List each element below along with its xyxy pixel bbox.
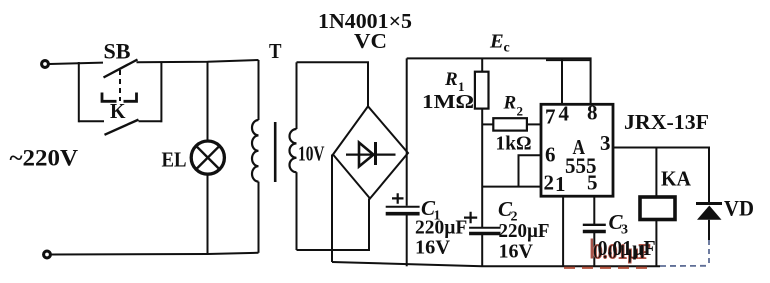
wire pin2 horizontal bbox=[482, 186, 541, 188]
svg-text:EL: EL bbox=[162, 148, 187, 172]
svg-text:c: c bbox=[504, 41, 510, 56]
svg-text:4: 4 bbox=[559, 102, 570, 126]
wire R2 to pin7 bbox=[527, 123, 541, 125]
transformer T primary winding bbox=[252, 120, 258, 182]
terminal bottom-left bbox=[44, 251, 51, 258]
wire EL branch bottom bbox=[207, 174, 209, 254]
switch SB blade bbox=[104, 60, 138, 78]
op-amp U1 555 box bbox=[541, 104, 613, 196]
contact K blade bbox=[105, 120, 139, 135]
lamp EL bbox=[191, 141, 224, 174]
wire C1 bottom bbox=[406, 216, 408, 267]
svg-text:3: 3 bbox=[600, 131, 611, 155]
diode VD bbox=[696, 202, 722, 205]
wire secondary top to bridge bbox=[297, 62, 369, 106]
capacitor C3 bbox=[583, 224, 606, 226]
wire R2 left bbox=[482, 123, 493, 125]
transformer T secondary wire bottom bbox=[296, 172, 298, 250]
svg-text:1kΩ: 1kΩ bbox=[496, 133, 532, 155]
wire pin5 to C3 bbox=[593, 196, 595, 224]
wire rail doubled segment bbox=[546, 59, 590, 61]
transformer T primary wire bottom bbox=[258, 182, 260, 253]
wire bottom rail left bbox=[51, 253, 259, 255]
wire bridge minus to ground bbox=[331, 155, 333, 263]
wire Ec top rail bbox=[407, 58, 591, 104]
svg-text:10V: 10V bbox=[298, 142, 325, 166]
wire VD bottom bbox=[708, 220, 710, 240]
svg-text:7: 7 bbox=[545, 105, 556, 129]
transformer T secondary wire top bbox=[296, 62, 298, 129]
svg-text:T: T bbox=[269, 39, 282, 63]
wire pin6 jog bbox=[519, 155, 542, 186]
svg-text:220µF: 220µF bbox=[499, 220, 550, 242]
bridge diode symbol bbox=[346, 154, 396, 156]
pushbutton bracket bbox=[102, 93, 137, 102]
wire pin4 drop bbox=[561, 58, 563, 104]
wire C3 bottom bbox=[593, 233, 595, 266]
wire ground rail right faded bbox=[660, 265, 707, 267]
transformer core bbox=[274, 122, 277, 182]
svg-text:VD: VD bbox=[724, 196, 754, 221]
wire R1 top bbox=[481, 58, 483, 74]
capacitor C1 bbox=[386, 206, 420, 208]
mechanical link dashed bbox=[119, 70, 121, 101]
svg-text:1: 1 bbox=[555, 172, 566, 196]
svg-text:R: R bbox=[503, 93, 517, 114]
wire top rail left bbox=[50, 63, 104, 64]
wire EL branch top bbox=[207, 62, 209, 142]
label C3 value red ghost bbox=[591, 239, 593, 259]
wire KA bottom bbox=[655, 220, 657, 267]
svg-text:8: 8 bbox=[587, 101, 598, 125]
terminal top-left bbox=[42, 61, 49, 68]
svg-text:R: R bbox=[444, 69, 458, 90]
wire C2 bottom bbox=[481, 235, 483, 266]
transformer T secondary winding bbox=[290, 129, 297, 172]
svg-text:~220V: ~220V bbox=[10, 146, 79, 171]
capacitor C2 bbox=[469, 227, 500, 229]
resistor R2 bbox=[493, 118, 527, 130]
wire secondary bottom to bridge bbox=[297, 199, 370, 251]
red overlay dashes on ground rail bbox=[564, 267, 652, 269]
svg-text:SB: SB bbox=[104, 39, 131, 64]
transformer T primary wire top bbox=[258, 60, 260, 120]
svg-text:16V: 16V bbox=[499, 241, 534, 263]
wire SB box left vertical bbox=[78, 62, 80, 122]
svg-text:K: K bbox=[110, 99, 126, 123]
wire SB box right vertical bbox=[160, 62, 162, 123]
wire pin3 output bbox=[613, 148, 709, 203]
bridge rectifier VC diamond bbox=[333, 106, 408, 198]
relay coil KA bbox=[640, 197, 675, 220]
wire ground rail bbox=[332, 262, 660, 266]
svg-text:E: E bbox=[489, 31, 504, 53]
wire K branch right bbox=[139, 120, 162, 122]
wire pin1 to ground bbox=[562, 196, 564, 267]
svg-text:JRX-13F: JRX-13F bbox=[624, 110, 709, 134]
svg-text:6: 6 bbox=[545, 143, 556, 167]
svg-text:1MΩ: 1MΩ bbox=[422, 91, 474, 113]
wire R1 bottom / C2 vertical bbox=[481, 109, 483, 227]
svg-text:2: 2 bbox=[544, 171, 555, 195]
wire top rail to transformer bbox=[137, 60, 259, 62]
svg-text:VC: VC bbox=[354, 29, 387, 53]
svg-text:16V: 16V bbox=[415, 237, 451, 259]
wire KA drop bbox=[655, 148, 657, 197]
wire bridge plus vertical / Ec rail riser bbox=[406, 58, 408, 205]
svg-text:2: 2 bbox=[517, 104, 524, 119]
svg-text:0.01µF: 0.01µF bbox=[598, 236, 656, 260]
svg-text:KA: KA bbox=[661, 167, 692, 191]
wire K branch left bbox=[79, 120, 104, 122]
svg-text:5: 5 bbox=[587, 171, 598, 195]
svg-text:220µF: 220µF bbox=[415, 217, 467, 239]
resistor R1 bbox=[475, 72, 489, 109]
